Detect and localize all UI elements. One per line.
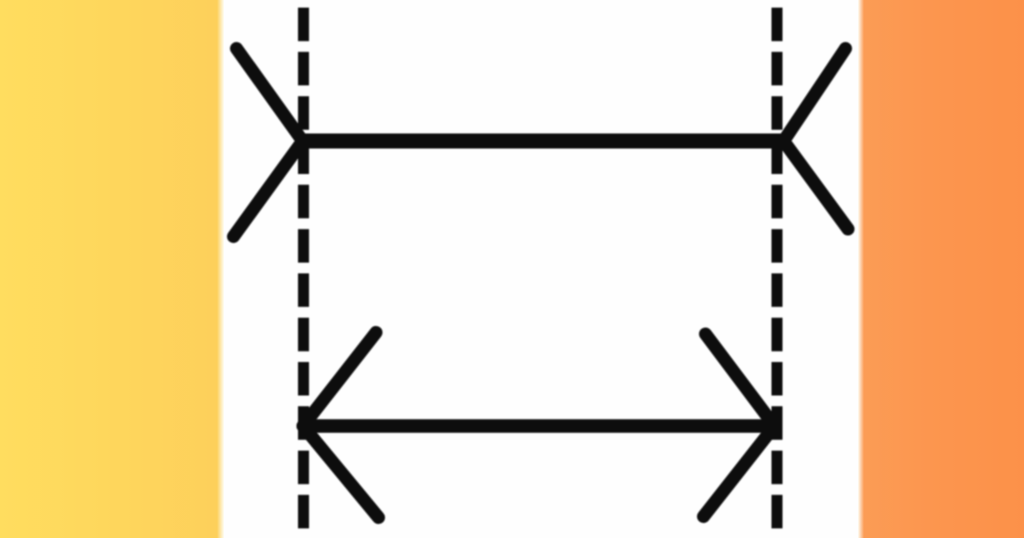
bottom-left upper fin (inward arrowhead)	[303, 333, 376, 427]
left dashed vertical line	[298, 8, 309, 530]
bottom-right lower fin (inward arrowhead)	[704, 426, 775, 517]
top-right upper fin (outward)	[784, 49, 846, 142]
bottom-right upper fin (inward arrowhead)	[706, 334, 775, 426]
right dashed vertical line	[772, 8, 783, 530]
top-left lower fin (outward)	[234, 141, 303, 237]
right orange band	[858, 0, 1024, 538]
top-left upper fin (outward)	[237, 49, 303, 142]
bottom horizontal shaft	[304, 419, 774, 433]
left yellow gradient band	[0, 0, 224, 538]
top horizontal shaft	[303, 134, 784, 149]
top-right lower fin (outward)	[784, 141, 848, 229]
bottom-left lower fin (inward arrowhead)	[303, 426, 379, 518]
